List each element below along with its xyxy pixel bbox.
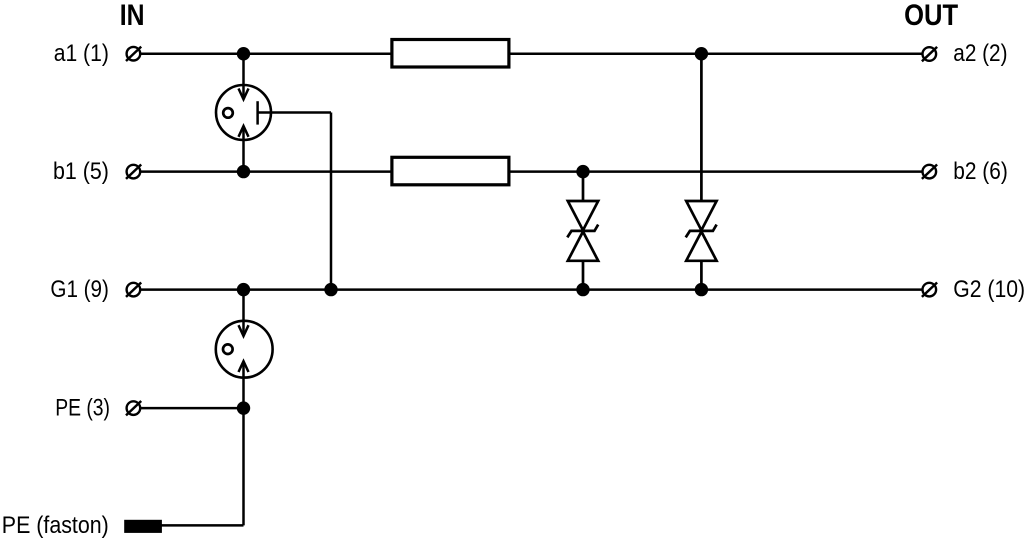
svg-text:IN: IN	[120, 0, 145, 32]
node a1 junction	[237, 47, 250, 60]
wire faston horizontal	[161, 524, 244, 527]
TVS diode D1 (bidirectional suppressor)	[567, 172, 598, 290]
wire a1 to fuse F1	[141, 52, 391, 55]
wire G1 to G2	[141, 288, 922, 291]
node PE junction	[237, 401, 250, 414]
svg-text:b1 (5): b1 (5)	[53, 158, 109, 185]
svg-text:a2 (2): a2 (2)	[953, 40, 1007, 67]
terminal PE (faston)	[2, 512, 162, 539]
terminal a1 (1)	[54, 40, 142, 67]
gas discharge tube F4 (2-electrode)	[216, 290, 273, 409]
svg-text:b2 (6): b2 (6)	[953, 158, 1008, 185]
fuse F2	[392, 157, 509, 185]
svg-text:OUT: OUT	[904, 0, 958, 32]
TVS diode D2 (bidirectional suppressor)	[686, 54, 717, 290]
terminal G1 (9)	[50, 276, 141, 303]
svg-text:G1 (9): G1 (9)	[50, 276, 109, 303]
wire faston riser	[242, 408, 245, 525]
node a1 right junction	[695, 47, 708, 60]
wire b1 to fuse F2	[141, 170, 391, 173]
terminal b2 (6)	[922, 158, 1008, 185]
node b1 right junction	[576, 165, 589, 178]
svg-text:a1 (1): a1 (1)	[54, 40, 109, 67]
fuse F1	[392, 40, 509, 68]
node G right TVS junction	[695, 283, 708, 296]
node G1 junction	[237, 283, 250, 296]
gas discharge tube F3 (3-electrode)	[216, 54, 331, 172]
wire electrode riser to G	[330, 113, 333, 290]
node G electrode junction	[324, 283, 337, 296]
node G left TVS junction	[576, 283, 589, 296]
terminal b1 (5)	[53, 158, 141, 185]
wire fuse F2 to b2	[510, 170, 922, 173]
node b1 junction	[237, 165, 250, 178]
svg-text:PE (faston): PE (faston)	[2, 512, 109, 539]
terminal PE (3)	[55, 394, 141, 421]
wire PE to node	[141, 407, 244, 410]
svg-text:G2 (10): G2 (10)	[953, 276, 1025, 303]
svg-text:PE (3): PE (3)	[55, 394, 110, 421]
terminal a2 (2)	[922, 40, 1008, 67]
terminal G2 (10)	[922, 276, 1025, 303]
wire fuse F1 to a2	[510, 52, 922, 55]
